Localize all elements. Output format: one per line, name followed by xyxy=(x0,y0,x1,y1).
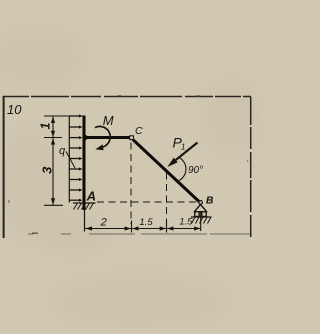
svg-text:1: 1 xyxy=(181,143,185,152)
svg-text:3: 3 xyxy=(39,166,54,174)
svg-text:M: M xyxy=(103,113,114,128)
svg-text:C: C xyxy=(135,125,143,137)
svg-text:1.5: 1.5 xyxy=(179,216,193,227)
svg-text:A: A xyxy=(86,188,96,203)
svg-text:1: 1 xyxy=(39,122,53,129)
svg-text:2: 2 xyxy=(100,217,107,229)
svg-text:1.5: 1.5 xyxy=(139,217,153,228)
svg-text:10: 10 xyxy=(7,102,22,117)
svg-text:q: q xyxy=(59,145,66,157)
svg-text:90°: 90° xyxy=(188,165,203,176)
svg-text:B: B xyxy=(206,195,214,207)
